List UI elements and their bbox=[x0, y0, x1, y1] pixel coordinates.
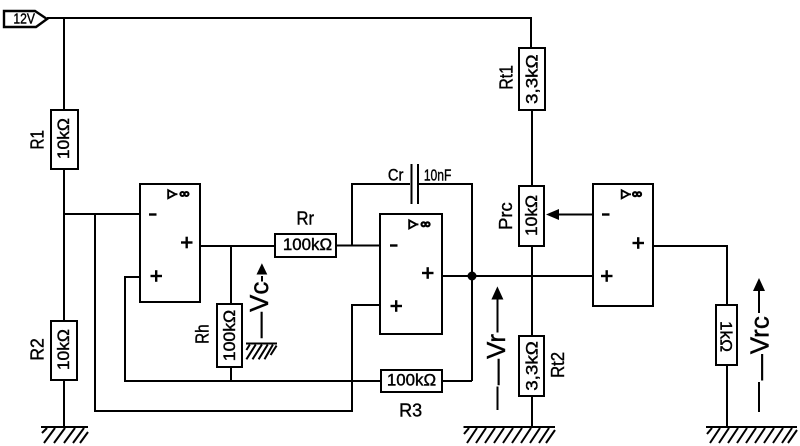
Prc wiper arrow to U3 inverting input bbox=[546, 209, 559, 220]
wire R1 bottom to R2 top bbox=[63, 169, 65, 321]
resistor R3 bbox=[381, 370, 442, 421]
resistor Rh bbox=[192, 304, 242, 367]
svg-text:100kΩ: 100kΩ bbox=[283, 236, 332, 254]
U1 inverting input pin - bbox=[149, 213, 157, 215]
svg-text:Rt1: Rt1 bbox=[497, 65, 517, 90]
op-amp U2 (integrator) bbox=[380, 214, 442, 334]
resistor Rt1 bbox=[497, 48, 546, 110]
op-amp U2 triangle-infinity symbol bbox=[409, 220, 416, 228]
op-amp U1 triangle-infinity symbol bbox=[168, 190, 175, 198]
svg-text:100kΩ: 100kΩ bbox=[221, 310, 239, 362]
svg-text:R1: R1 bbox=[27, 130, 47, 150]
svg-text:10nF: 10nF bbox=[424, 167, 452, 184]
svg-text:R2: R2 bbox=[27, 338, 47, 361]
svg-text:Prc: Prc bbox=[496, 202, 516, 230]
U3 inverting input pin - bbox=[602, 213, 610, 215]
U3 output pin + bbox=[633, 237, 645, 249]
svg-text:—Vr: —Vr bbox=[481, 334, 511, 385]
resistor Rr bbox=[275, 209, 336, 257]
U1 non-inverting input pin + bbox=[151, 270, 163, 282]
ground of Vc annotation bbox=[246, 343, 277, 345]
wire node divider to op-amp U1 inverting input bbox=[64, 213, 140, 215]
wire U1 output node to Rh top bbox=[230, 246, 232, 304]
potentiometer Prc bbox=[496, 186, 593, 246]
voltage arrow Vrc bbox=[745, 278, 775, 412]
U2 inverting input pin - bbox=[390, 244, 398, 246]
wire R2 bottom to ground bbox=[63, 380, 65, 427]
svg-text:Cr: Cr bbox=[388, 165, 404, 184]
U1 output pin + bbox=[181, 237, 193, 249]
svg-text:10kΩ: 10kΩ bbox=[55, 329, 73, 370]
resistor R1 bbox=[27, 110, 78, 169]
voltage arrow Vc bbox=[244, 263, 277, 359]
wire load resistor bottom to ground bbox=[726, 365, 728, 427]
U3 non-inverting input pin + bbox=[601, 270, 613, 282]
wire Rt1 bottom to Prc top bbox=[531, 110, 533, 186]
resistor R2 bbox=[27, 321, 77, 380]
svg-text:—Vrc: —Vrc bbox=[745, 316, 775, 380]
wire U2 output to junction node bbox=[442, 275, 472, 277]
op-amp U3 (output buffer) bbox=[593, 184, 653, 306]
wire integrator input node up to Cr bbox=[352, 184, 410, 246]
svg-text:12V: 12V bbox=[13, 11, 35, 27]
op-amp U1 (comparator) bbox=[140, 184, 200, 302]
svg-text:10kΩ: 10kΩ bbox=[523, 195, 541, 236]
svg-text:100kΩ: 100kΩ bbox=[387, 372, 436, 390]
svg-text:3,3kΩ: 3,3kΩ bbox=[524, 341, 542, 391]
op-amp U3 triangle-infinity symbol bbox=[622, 190, 629, 198]
svg-text:Rr: Rr bbox=[297, 209, 315, 229]
resistor 1kΩ load bbox=[716, 305, 737, 365]
wire U3 output to load resistor bbox=[653, 246, 727, 305]
wire Rh bottom to feedback line bbox=[230, 367, 232, 381]
wire divider node to U2 non-inverting input bbox=[95, 214, 380, 411]
U2 non-inverting input pin + bbox=[391, 300, 403, 312]
resistor Rt2 bbox=[519, 336, 568, 396]
wire 12V rail to R1 top bbox=[63, 18, 65, 110]
wire top rail from 12V tag to Rt1 bbox=[47, 18, 531, 48]
junction node U2 output bbox=[468, 272, 477, 281]
wire U2 output node to U3 non-inverting input bbox=[472, 275, 593, 277]
svg-text:10kΩ: 10kΩ bbox=[55, 118, 73, 159]
supply tag 12V bbox=[4, 11, 47, 27]
wire Cr right plate to U2 output node bbox=[419, 184, 472, 381]
svg-text:R3: R3 bbox=[399, 401, 422, 421]
svg-text:3,3kΩ: 3,3kΩ bbox=[524, 54, 542, 104]
voltage arrow Vr bbox=[481, 286, 511, 410]
ground under Rt2 bbox=[464, 427, 556, 443]
capacitor Cr bbox=[388, 164, 452, 204]
wire U1 output to Rr bbox=[200, 245, 275, 247]
wire U1 non-inverting input feedback line bbox=[125, 277, 381, 381]
wire Prc bottom to Rt2 top bbox=[531, 246, 533, 336]
U2 output pin + bbox=[422, 267, 434, 279]
svg-text:1kΩ: 1kΩ bbox=[717, 321, 735, 352]
wire R3 right to U2 output node bbox=[442, 380, 472, 382]
svg-text:—Vc: —Vc bbox=[244, 282, 274, 338]
svg-text:Rh: Rh bbox=[192, 324, 212, 344]
wire Rt2 bottom to ground bbox=[531, 396, 533, 427]
ground under load resistor bbox=[706, 427, 797, 443]
svg-text:Rt2: Rt2 bbox=[548, 352, 568, 378]
ground under R2 bbox=[41, 427, 88, 443]
wire Rr to U2 inverting input bbox=[336, 245, 380, 247]
